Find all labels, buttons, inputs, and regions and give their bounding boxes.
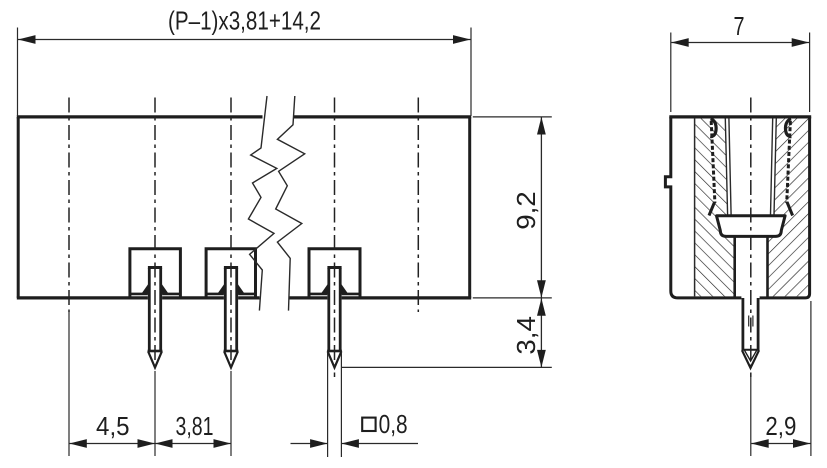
svg-text:9,2: 9,2: [511, 191, 541, 230]
arrow 0,8 right (outside): [341, 439, 359, 448]
extension lines pin 3 edges (for square 0,8): [328, 352, 342, 457]
funnel cavity lines right: [771, 118, 777, 215]
contact spring right bottom flare: [787, 202, 793, 216]
leader line pin tip level (for 3,4 and square 0,8): [342, 366, 552, 368]
pin (side view): [742, 297, 760, 368]
svg-text:(P–1)x3,81+14,2: (P–1)x3,81+14,2: [168, 6, 321, 36]
arrow 3,81 right: [214, 439, 232, 448]
contact spring right (serrated): [787, 121, 791, 203]
extension line body bottom right (for 9,2 / 3,4): [473, 297, 552, 299]
break line left: [248, 96, 276, 311]
center line pin 1: [154, 98, 156, 372]
arrow 4,5 left: [69, 439, 87, 448]
pin housing box 1: [130, 249, 181, 299]
square symbol: [362, 418, 375, 431]
connector body front view: bottom edge (gaps at break and pins): [17, 296, 471, 299]
svg-text:3,4: 3,4: [511, 316, 541, 355]
arrow 3,4 top: [537, 298, 546, 316]
right hatched wall: [768, 118, 809, 296]
svg-text:0,8: 0,8: [379, 409, 408, 439]
arrows at pin1 center: [138, 439, 156, 448]
arrow 3,4 bottom: [537, 350, 546, 368]
svg-text:3,81: 3,81: [176, 411, 214, 441]
section body outline: [665, 117, 809, 298]
top dimension (P-1)x3,81+14,2: extension lines: [18, 28, 472, 117]
svg-text:7: 7: [734, 11, 745, 41]
connector body front view: right edge: [468, 117, 471, 298]
left hatched wall: [695, 118, 735, 296]
pin housing box 2: [206, 249, 255, 299]
pin 1: [141, 266, 168, 368]
center line pin 2: [230, 98, 232, 372]
dimension 7: extension lines: [671, 33, 810, 113]
top dimension arrows: [18, 35, 36, 44]
funnel cavity lines left: [725, 118, 731, 215]
center line position A (x=69): [68, 98, 70, 313]
connector body front view: left edge: [17, 117, 20, 298]
dimension line 2,9: [751, 443, 810, 445]
center line position B (x=418): [417, 98, 419, 313]
arrow 9,2 top: [537, 117, 546, 135]
inner wall face line: [694, 118, 696, 296]
section top edge: [669, 115, 811, 118]
svg-text:2,9: 2,9: [765, 411, 796, 441]
dimension line square 0,8: [291, 443, 419, 445]
top dimension line: [18, 39, 471, 41]
extension line body top right (for 9,2): [473, 116, 552, 118]
arrow 9,2 bottom: [537, 280, 546, 298]
dimension line 7: [671, 42, 809, 44]
center line side view pin: [750, 98, 752, 378]
vertical dimension line 9,2 / 3,4: [540, 117, 542, 368]
contact spring left hook: [710, 119, 716, 137]
contact spring right hook: [785, 119, 791, 137]
bottom dimension line 4,5 / 3,81: [69, 443, 231, 445]
extension line pin 1: [154, 371, 156, 456]
break line right: [276, 96, 305, 311]
pin channel walls: [735, 236, 768, 297]
extension line for 4,5 at x=69: [68, 311, 70, 456]
extension line pin 2: [230, 371, 232, 456]
dimension 2,9: extension lines: [751, 301, 811, 456]
contact spring left (serrated): [711, 121, 715, 203]
connector body front view: top edge (gap at break): [17, 115, 471, 118]
pin housing box 3: [309, 249, 360, 299]
arrows 7: [671, 38, 689, 47]
pin 2: [217, 266, 244, 368]
contact spring left bottom flare: [709, 202, 715, 216]
pin 3: [321, 266, 348, 368]
arrows 2,9: [751, 439, 769, 448]
arrow 0,8 left (outside): [310, 439, 328, 448]
contact base block: [717, 216, 786, 237]
svg-text:4,5: 4,5: [96, 411, 130, 441]
center line pin 3: [334, 98, 336, 378]
